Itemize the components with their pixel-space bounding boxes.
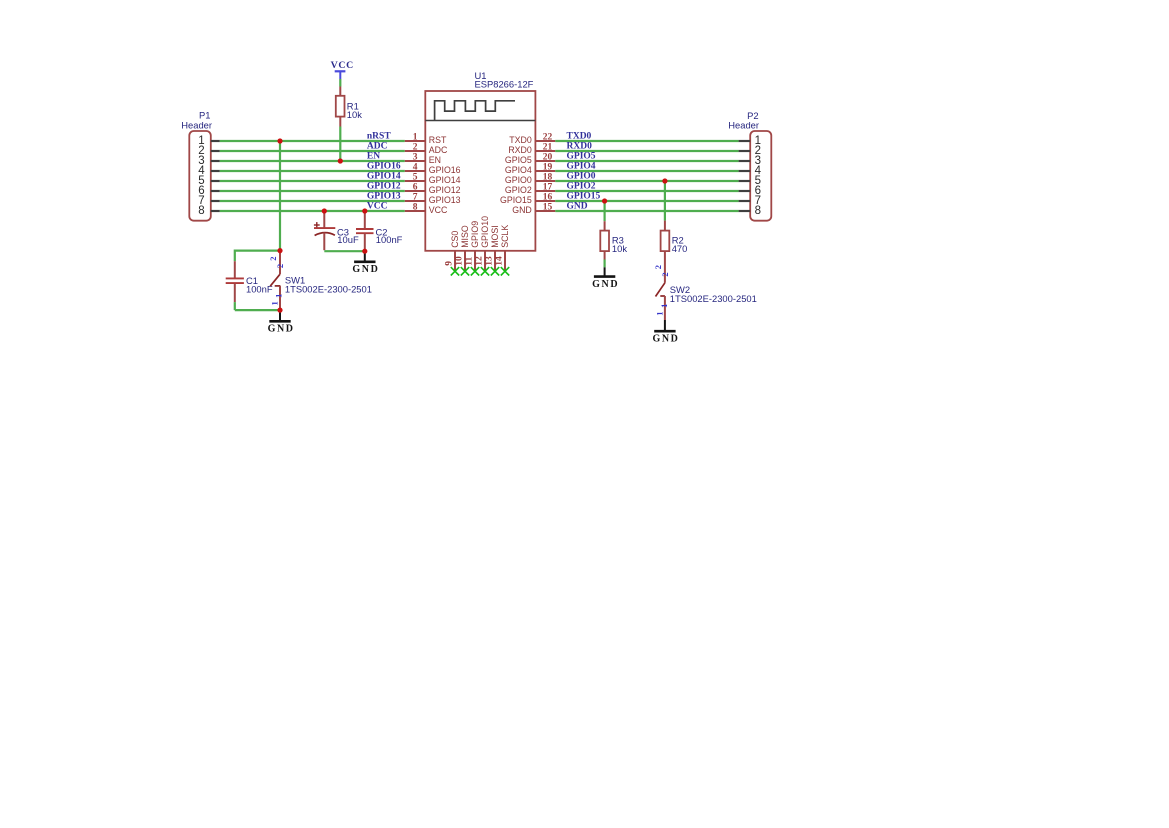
svg-text:GPIO5: GPIO5 [567, 152, 596, 162]
wire net VCC (P1-8 to U1) [220, 210, 405, 212]
wire net TXD0 (U1-22 to P2) [555, 140, 738, 142]
junction [662, 178, 667, 183]
svg-text:7: 7 [413, 193, 418, 203]
svg-text:GND: GND [567, 202, 588, 212]
svg-text:4: 4 [413, 163, 418, 173]
C3 plus sign [314, 224, 320, 226]
resistor R2 [664, 221, 666, 231]
svg-text:EN: EN [367, 152, 380, 162]
ground symbol bar [594, 275, 615, 278]
P1 pin 3 stub [211, 160, 220, 162]
U1 pin 10 (MISO) stub [464, 251, 466, 271]
U1 pin 1 (RST) stub [405, 140, 426, 142]
wire R1 to EN net [339, 127, 341, 162]
junction [277, 308, 282, 313]
svg-text:GPIO4: GPIO4 [567, 162, 596, 172]
svg-text:MISO: MISO [460, 225, 470, 248]
svg-text:19: 19 [543, 163, 553, 173]
ground symbol lead [364, 251, 366, 262]
wire C1 bottom to SW1 bottom [235, 309, 280, 311]
U1 pin 21 (RXD0) stub [535, 150, 555, 152]
svg-text:13: 13 [485, 256, 495, 266]
wire net nRST (P1-1 to U1) [220, 140, 405, 142]
svg-text:Header: Header [728, 120, 759, 131]
switch SW1 top contact [279, 251, 281, 275]
svg-text:GPIO5: GPIO5 [505, 155, 532, 165]
connector P1 [189, 131, 211, 221]
svg-text:100nF: 100nF [246, 283, 273, 294]
svg-text:9: 9 [445, 261, 455, 266]
C2 top plate [356, 228, 374, 230]
svg-text:TXD0: TXD0 [567, 132, 592, 142]
junction [602, 198, 607, 203]
svg-text:GND: GND [652, 334, 679, 345]
svg-text:100nF: 100nF [376, 234, 403, 245]
no-connect flag on U1 pin 9 [451, 267, 459, 275]
wire net GPIO12 (P1-6 to U1) [220, 190, 405, 192]
P1 pin 2 stub [211, 150, 220, 152]
P1 pin 8 stub [211, 210, 220, 212]
svg-text:TXD0: TXD0 [509, 135, 532, 145]
C3 top plate [314, 227, 335, 229]
U1 antenna meander [435, 101, 515, 121]
svg-text:RST: RST [429, 135, 447, 145]
SW2 bottom lead [664, 296, 666, 320]
svg-text:VCC: VCC [429, 205, 448, 215]
P1 pin 7 stub [211, 200, 220, 202]
no-connect flag on U1 pin 11 [471, 267, 479, 275]
wire net GPIO2 (U1-17 to P2) [555, 190, 738, 192]
ground symbol lead [604, 267, 606, 276]
ground symbol bar [269, 320, 290, 323]
svg-text:1: 1 [274, 294, 284, 298]
wire net GPIO0 (U1-18 to P2) [555, 180, 738, 182]
svg-text:2: 2 [653, 265, 663, 269]
wire net GPIO5 (U1-20 to P2) [555, 160, 738, 162]
U1 pin 16 (GPIO15) stub [535, 200, 555, 202]
svg-text:MOSI: MOSI [490, 225, 500, 247]
wire net RXD0 (U1-21 to P2) [555, 150, 738, 152]
svg-text:SCLK: SCLK [500, 225, 510, 248]
U1 pin 9 (CS0) stub [454, 251, 456, 271]
switch SW2 lever [656, 283, 665, 297]
svg-text:14: 14 [495, 256, 505, 266]
P2 pin 7 stub [739, 200, 751, 202]
svg-text:GPIO10: GPIO10 [480, 216, 490, 248]
svg-text:8: 8 [198, 205, 204, 217]
wire net GPIO15 (U1-16 to P2) [555, 200, 738, 202]
resistor R1 [339, 87, 341, 96]
wire net GPIO14 (P1-5 to U1) [220, 180, 405, 182]
ground symbol lead [279, 310, 281, 321]
svg-text:6: 6 [413, 183, 418, 193]
capacitor C2 top lead [364, 211, 366, 229]
svg-text:10: 10 [455, 256, 465, 266]
U1 pin 13 (MOSI) stub [494, 251, 496, 271]
svg-text:nRST: nRST [367, 132, 391, 142]
no-connect flag on U1 pin 14 [501, 267, 509, 275]
svg-text:17: 17 [543, 183, 553, 193]
SW1 bottom contact tick [275, 285, 281, 287]
U1 pin 22 (TXD0) stub [535, 140, 555, 142]
svg-text:5: 5 [413, 173, 418, 183]
junction [338, 158, 343, 163]
U1 pin 8 (VCC) stub [405, 210, 426, 212]
U1 pin 2 (ADC) stub [405, 150, 426, 152]
svg-text:1: 1 [655, 311, 665, 315]
svg-text:3: 3 [413, 153, 418, 163]
svg-text:RXD0: RXD0 [567, 142, 593, 152]
P1 pin 1 stub [211, 140, 220, 142]
C2 bottom lead [364, 233, 366, 251]
svg-text:1: 1 [270, 301, 280, 305]
U1 pin 3 (EN) stub [405, 160, 426, 162]
SW2 bottom contact tick [660, 295, 665, 297]
junction [277, 248, 282, 253]
U1 pin 15 (GND) stub [535, 210, 555, 212]
ground symbol bar [654, 330, 675, 333]
wire C3 bottom to C2 bottom [324, 250, 365, 252]
svg-text:GPIO0: GPIO0 [567, 172, 596, 182]
svg-text:GPIO14: GPIO14 [367, 172, 401, 182]
svg-text:11: 11 [465, 256, 475, 265]
wire VCC to R1 [339, 79, 341, 87]
U1 pin 17 (GPIO2) stub [535, 190, 555, 192]
svg-text:18: 18 [543, 173, 553, 183]
svg-text:8: 8 [413, 203, 418, 213]
wire GPIO15 to R3 [603, 201, 605, 221]
resistor R3 [604, 221, 606, 230]
wire C1 left vertical bottom [234, 302, 236, 310]
svg-text:10k: 10k [612, 243, 627, 254]
IC U1 ESP8266-12F body [425, 91, 535, 251]
svg-text:GPIO4: GPIO4 [505, 165, 532, 175]
wire net GPIO16 (P1-4 to U1) [220, 170, 405, 172]
svg-text:22: 22 [543, 133, 553, 143]
no-connect flag on U1 pin 12 [481, 267, 489, 275]
svg-text:CS0: CS0 [450, 231, 460, 248]
svg-text:GPIO12: GPIO12 [367, 182, 401, 192]
svg-text:GPIO13: GPIO13 [429, 195, 461, 205]
wire net EN (P1-3 to U1) [220, 160, 405, 162]
U1 pin 19 (GPIO4) stub [535, 170, 555, 172]
svg-text:470: 470 [672, 243, 688, 254]
svg-text:GPIO9: GPIO9 [470, 221, 480, 248]
capacitor C3 top lead [323, 211, 325, 228]
svg-text:GPIO2: GPIO2 [567, 182, 596, 192]
svg-text:2: 2 [660, 272, 670, 276]
junction [322, 208, 327, 213]
wire net ADC (P1-2 to U1) [220, 150, 405, 152]
P2 pin 4 stub [739, 170, 751, 172]
U1 pin 18 (GPIO0) stub [535, 180, 555, 182]
svg-text:16: 16 [543, 193, 553, 203]
svg-text:GPIO12: GPIO12 [429, 185, 461, 195]
svg-text:8: 8 [755, 205, 761, 217]
wire net GPIO13 (P1-7 to U1) [220, 200, 405, 202]
svg-text:2: 2 [413, 143, 418, 153]
svg-text:10k: 10k [347, 109, 362, 120]
U1 pin 4 (GPIO16) stub [405, 170, 426, 172]
svg-text:2: 2 [268, 256, 278, 260]
svg-text:10uF: 10uF [337, 234, 359, 245]
C2 bottom plate [356, 232, 374, 234]
capacitor C1 [234, 261, 236, 278]
P2 pin 2 stub [739, 150, 751, 152]
junction [362, 249, 367, 254]
P1 pin 4 stub [211, 170, 220, 172]
no-connect flag on U1 pin 10 [461, 267, 469, 275]
wire nRST vertical drop [279, 141, 281, 251]
no-connect flag on U1 pin 13 [491, 267, 499, 275]
svg-text:GPIO0: GPIO0 [505, 175, 532, 185]
C3 bottom lead [323, 233, 325, 251]
svg-text:GPIO15: GPIO15 [500, 195, 532, 205]
C3 bottom arc plate [315, 233, 335, 236]
svg-text:VCC: VCC [331, 60, 354, 71]
SW1 bottom lead [279, 286, 281, 310]
svg-text:GND: GND [592, 279, 619, 290]
svg-text:ESP8266-12F: ESP8266-12F [475, 79, 534, 90]
U1 pin 12 (GPIO10) stub [484, 251, 486, 271]
svg-text:2: 2 [275, 264, 285, 268]
junction [362, 208, 367, 213]
svg-text:GND: GND [268, 324, 295, 335]
connector P2 [750, 131, 771, 221]
svg-text:GPIO2: GPIO2 [505, 185, 532, 195]
wire junction to C1 top [235, 250, 280, 252]
svg-text:GPIO16: GPIO16 [367, 162, 401, 172]
svg-text:GPIO14: GPIO14 [429, 175, 461, 185]
U1 pin 11 (GPIO9) stub [474, 251, 476, 271]
svg-text:1TS002E-2300-2501: 1TS002E-2300-2501 [670, 293, 757, 304]
svg-text:20: 20 [543, 153, 553, 163]
U1 pin 20 (GPIO5) stub [535, 160, 555, 162]
SW1 lever [270, 274, 280, 286]
ground symbol lead [664, 320, 666, 331]
svg-text:21: 21 [543, 143, 553, 153]
U1 antenna separator line [425, 120, 535, 122]
P1 pin 5 stub [211, 180, 220, 182]
svg-text:1: 1 [413, 133, 418, 143]
svg-text:1: 1 [659, 304, 669, 308]
U1 pin 6 (GPIO12) stub [405, 190, 426, 192]
svg-text:GND: GND [352, 264, 379, 275]
P2 pin 3 stub [739, 160, 751, 162]
svg-text:ADC: ADC [367, 142, 388, 152]
svg-text:RXD0: RXD0 [508, 145, 532, 155]
svg-text:VCC: VCC [367, 202, 388, 212]
svg-text:ADC: ADC [429, 145, 448, 155]
svg-text:EN: EN [429, 155, 441, 165]
wire net GND (U1-15 to P2) [555, 210, 738, 212]
P2 pin 5 stub [739, 180, 751, 182]
svg-text:12: 12 [475, 256, 485, 266]
junction [277, 138, 282, 143]
svg-text:Header: Header [181, 120, 212, 131]
wire GPIO0 to R2 [664, 181, 666, 221]
wire R3 to GND [603, 260, 605, 268]
U1 pin 7 (GPIO13) stub [405, 200, 426, 202]
U1 pin 14 (SCLK) stub [504, 251, 506, 271]
svg-text:15: 15 [543, 203, 553, 213]
svg-text:GPIO16: GPIO16 [429, 165, 461, 175]
wire C1 left vertical top [234, 250, 236, 262]
P2 pin 8 stub [739, 210, 751, 212]
svg-text:GND: GND [512, 205, 532, 215]
U1 pin 5 (GPIO14) stub [405, 180, 426, 182]
P2 pin 1 stub [739, 140, 751, 142]
svg-text:GPIO13: GPIO13 [367, 192, 401, 202]
P2 pin 6 stub [739, 190, 751, 192]
wire net GPIO4 (U1-19 to P2) [555, 170, 738, 172]
svg-text:GPIO15: GPIO15 [567, 192, 601, 202]
P1 pin 6 stub [211, 190, 220, 192]
ground symbol bar [354, 260, 375, 263]
svg-text:1TS002E-2300-2501: 1TS002E-2300-2501 [285, 283, 372, 294]
